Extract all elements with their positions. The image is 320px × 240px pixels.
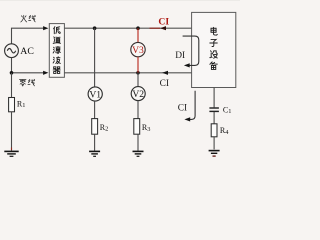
resistor R3	[134, 119, 140, 135]
wire: R4 to ground	[213, 137, 215, 150]
junction: live rail / V1 branch	[93, 26, 97, 30]
wire: neutral to low-pass filter	[12, 72, 44, 74]
wire: R1 to ground	[11, 112, 13, 151]
arrow CI on live rail (points left)	[160, 26, 166, 30]
ground (R3)	[133, 151, 144, 156]
wire: AC top to low-pass filter (live)	[12, 28, 44, 44]
wire: equipment box to C1	[213, 88, 215, 108]
wire: R2 to ground	[94, 134, 96, 151]
junction: neutral rail / V3-V2	[136, 71, 140, 75]
voltmeter V2	[131, 87, 145, 101]
svg-text:CI: CI	[158, 17, 169, 28]
wire: C1 to R4	[213, 112, 215, 124]
junction: live rail / V3 branch	[136, 26, 140, 30]
wire: V3 stub bottom (red)	[137, 57, 139, 73]
svg-text:CI: CI	[178, 103, 187, 113]
electronic equipment box	[192, 12, 236, 87]
junction: neutral / R1	[10, 71, 14, 75]
capacitor C1	[209, 108, 219, 111]
DI current loop arrow	[183, 36, 199, 65]
label 电子设备 (vertical)	[210, 27, 217, 69]
svg-text:CI: CI	[160, 79, 169, 89]
wire: V2 stub from neutral rail	[137, 73, 139, 87]
wire: V1 to R2	[94, 101, 96, 119]
resistor R4	[211, 124, 217, 137]
ground (R2)	[89, 151, 100, 156]
voltmeter V1	[88, 87, 102, 101]
voltmeter V3	[131, 42, 145, 56]
ground (R4)	[209, 151, 220, 157]
label 低通滤波器 (vertical)	[53, 27, 60, 74]
label 火线 (live wire)	[21, 15, 36, 22]
arrow into filter (live)	[43, 26, 48, 30]
label 零线 (neutral wire)	[19, 79, 34, 86]
resistor R2	[92, 119, 98, 135]
CI elbow arrow (equipment leakage path)	[190, 91, 196, 120]
svg-text:V3: V3	[132, 45, 144, 56]
svg-text:V1: V1	[89, 89, 101, 100]
svg-text:V2: V2	[132, 89, 144, 100]
arrow CI on neutral rail (points left)	[162, 71, 168, 75]
resistor R1	[9, 98, 15, 112]
wire: live rail (filter to equipment)	[64, 27, 191, 29]
wire: neutral rail (filter to equipment)	[64, 72, 191, 74]
wire: R3 to ground	[137, 134, 139, 151]
svg-text:AC: AC	[20, 46, 34, 57]
arrow into filter (neutral)	[43, 71, 48, 75]
AC source	[5, 44, 19, 58]
ground (R1)	[11, 148, 13, 151]
wire: AC bottom to junction (neutral)	[11, 58, 13, 73]
wire: V1 branch from live rail (crosses neutral rail)	[94, 28, 96, 87]
red CI segment on live rail	[150, 27, 161, 29]
low-pass filter box	[49, 24, 64, 78]
svg-text:DI: DI	[175, 51, 185, 61]
wire: V3 stub top (red)	[137, 28, 139, 42]
wire: V2 to R3	[137, 101, 139, 119]
wire: junction to R1	[11, 73, 13, 98]
